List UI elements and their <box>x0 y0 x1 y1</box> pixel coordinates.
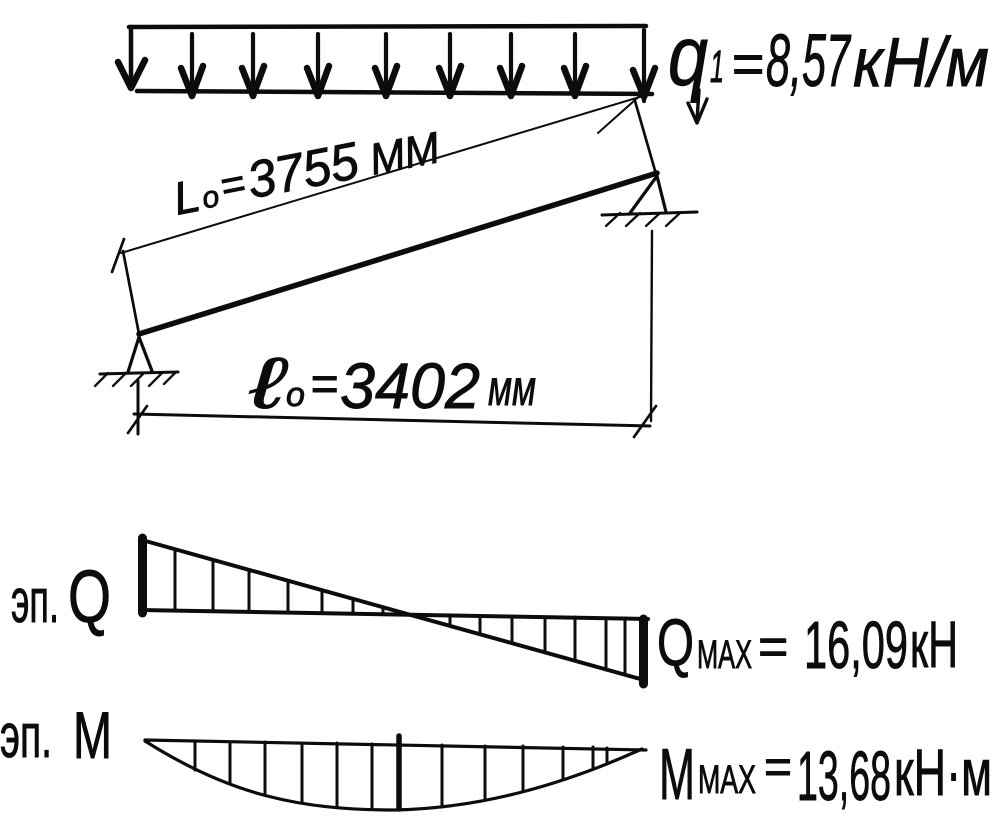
svg-text:MAX: MAX <box>698 758 756 802</box>
svg-text:13,68: 13,68 <box>797 737 891 815</box>
svg-text:3402: 3402 <box>340 350 480 422</box>
svg-text:MAX: MAX <box>697 633 752 677</box>
svg-text:8,57: 8,57 <box>766 19 852 102</box>
svg-text:=: = <box>758 618 788 676</box>
svg-text:М: М <box>659 735 695 815</box>
svg-text:o: o <box>286 376 305 414</box>
svg-text:эп.: эп. <box>11 567 59 636</box>
svg-text:М: М <box>73 698 112 772</box>
svg-text:Q: Q <box>657 605 694 679</box>
svg-text:q: q <box>668 9 708 103</box>
svg-text:16,09: 16,09 <box>804 608 908 683</box>
svg-text:=: = <box>310 358 338 411</box>
svg-text:1: 1 <box>710 41 724 92</box>
svg-text:ℓ: ℓ <box>249 344 288 424</box>
svg-text:мм: мм <box>488 360 536 416</box>
svg-text:Q: Q <box>68 555 111 638</box>
svg-text:=: = <box>731 32 764 95</box>
svg-text:кН/м: кН/м <box>853 23 989 101</box>
svg-text:эп.: эп. <box>0 702 52 771</box>
svg-text:кН: кН <box>910 607 958 681</box>
svg-text:кН·м: кН·м <box>894 735 992 809</box>
svg-text:=: = <box>764 741 792 794</box>
